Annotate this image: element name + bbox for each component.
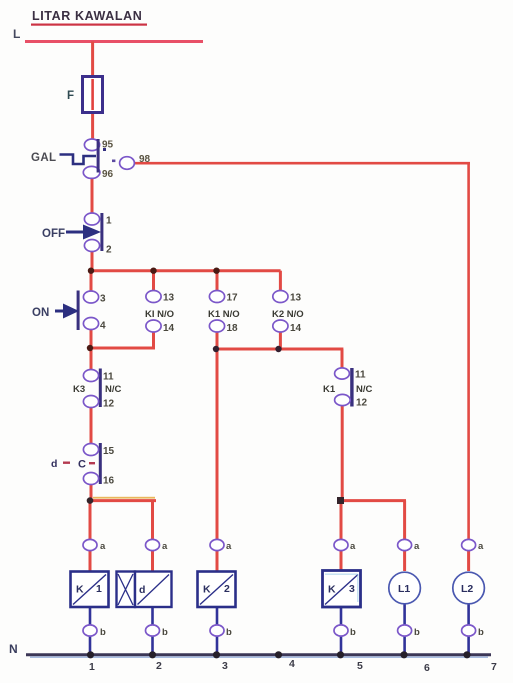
svg-text:1: 1	[106, 216, 112, 227]
svg-text:N: N	[9, 642, 18, 656]
svg-text:4: 4	[100, 321, 106, 332]
svg-text:K1: K1	[323, 384, 336, 395]
svg-text:K: K	[328, 584, 336, 596]
svg-text:N/C: N/C	[356, 384, 373, 395]
svg-text:6: 6	[424, 662, 430, 674]
svg-text:7: 7	[491, 661, 497, 673]
svg-text:95: 95	[102, 140, 114, 151]
svg-text:C: C	[78, 459, 86, 471]
svg-text:15: 15	[103, 446, 115, 457]
svg-text:N/C: N/C	[105, 384, 122, 395]
svg-text:KI N/O: KI N/O	[145, 309, 174, 320]
svg-text:14: 14	[163, 323, 175, 334]
svg-text:K2 N/O: K2 N/O	[272, 309, 304, 320]
svg-text:96: 96	[102, 169, 114, 180]
svg-text:3: 3	[349, 583, 355, 595]
svg-text:3: 3	[100, 294, 106, 305]
svg-text:b: b	[350, 627, 356, 638]
svg-text:13: 13	[290, 293, 302, 304]
svg-text:3: 3	[222, 660, 228, 672]
svg-text:K: K	[76, 584, 84, 596]
svg-text:4: 4	[289, 658, 295, 670]
svg-text:17: 17	[227, 293, 239, 304]
svg-text:12: 12	[356, 398, 368, 409]
svg-text:18: 18	[227, 323, 239, 334]
svg-text:11: 11	[103, 372, 114, 383]
svg-text:b: b	[414, 627, 420, 638]
svg-text:K: K	[203, 584, 211, 596]
svg-text:K3: K3	[73, 384, 85, 395]
svg-text:11: 11	[355, 370, 366, 381]
svg-text:ON: ON	[32, 307, 49, 319]
svg-text:16: 16	[103, 476, 115, 487]
svg-text:b: b	[478, 627, 484, 638]
svg-text:5: 5	[357, 660, 363, 672]
svg-text:LITAR KAWALAN: LITAR KAWALAN	[32, 9, 142, 23]
svg-text:OFF: OFF	[42, 228, 65, 240]
svg-text:1: 1	[96, 583, 102, 595]
svg-text:13: 13	[163, 293, 175, 304]
svg-text:a: a	[162, 541, 168, 552]
svg-text:a: a	[478, 541, 484, 552]
svg-text:L: L	[13, 27, 20, 41]
svg-text:GAL: GAL	[31, 152, 56, 164]
svg-text:d: d	[51, 458, 57, 470]
svg-text:a: a	[414, 541, 420, 552]
svg-text:K1 N/O: K1 N/O	[208, 309, 240, 320]
svg-text:b: b	[226, 627, 232, 638]
svg-text:1: 1	[89, 661, 95, 673]
svg-text:98: 98	[139, 154, 151, 165]
svg-text:a: a	[350, 541, 356, 552]
svg-text:b: b	[100, 627, 106, 638]
svg-text:a: a	[226, 541, 232, 552]
svg-text:L2: L2	[461, 583, 473, 595]
svg-text:14: 14	[290, 323, 302, 334]
svg-text:F: F	[67, 90, 74, 102]
svg-text:b: b	[162, 627, 168, 638]
svg-text:2: 2	[156, 660, 162, 672]
svg-text:a: a	[100, 541, 106, 552]
svg-text:d: d	[139, 584, 145, 596]
svg-text:2: 2	[224, 583, 230, 595]
svg-text:12: 12	[103, 399, 115, 410]
svg-text:2: 2	[106, 245, 112, 256]
svg-text:L1: L1	[398, 583, 410, 595]
